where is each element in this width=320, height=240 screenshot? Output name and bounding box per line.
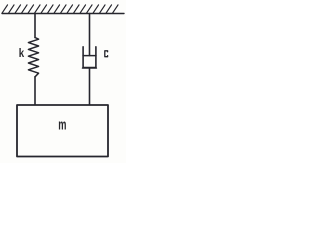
damper C : piston crossbar	[83, 55, 96, 57]
mass m (block)	[17, 105, 108, 157]
wire: ceiling to damper piston rod	[89, 14, 91, 56]
wire: spring bottom to mass	[34, 77, 36, 105]
label C (squarish glyph)	[105, 51, 108, 57]
wire: damper cup to mass	[89, 68, 91, 105]
wire: ceiling to spring top	[34, 14, 36, 38]
fixed ceiling support line	[2, 13, 124, 15]
spring k (zigzag)	[28, 38, 38, 77]
damper C : cylinder cup	[83, 47, 96, 68]
damper C : cup bottom (thicker)	[83, 67, 97, 69]
svg-text:k: k	[19, 47, 24, 60]
svg-text:m: m	[58, 117, 66, 134]
ceiling hatching	[2, 5, 118, 13]
